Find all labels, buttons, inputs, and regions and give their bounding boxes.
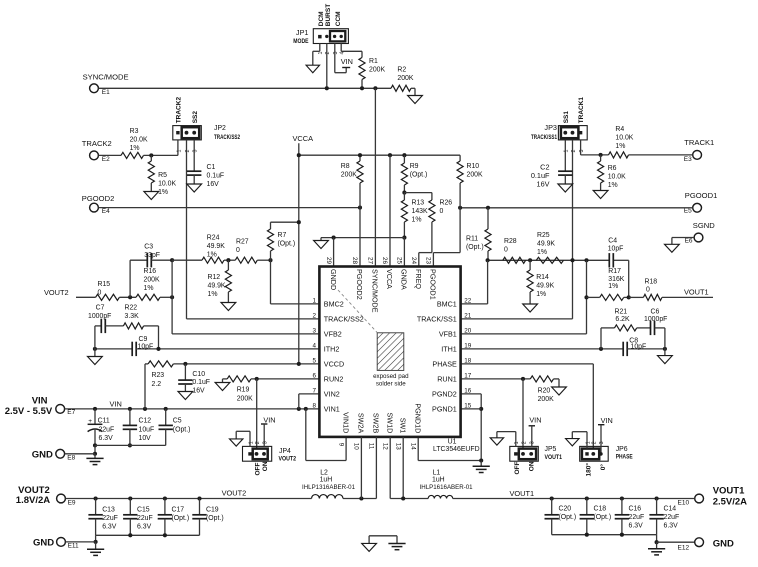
svg-text:180°: 180° xyxy=(584,463,592,477)
svg-text:2.2: 2.2 xyxy=(152,381,162,388)
svg-text:6.3V: 6.3V xyxy=(629,523,644,530)
svg-text:C6: C6 xyxy=(651,309,660,316)
svg-text:R15: R15 xyxy=(98,281,111,288)
svg-text:PGOOD2: PGOOD2 xyxy=(82,194,115,203)
svg-text:10.0K: 10.0K xyxy=(615,135,633,142)
svg-text:JP6: JP6 xyxy=(616,446,628,453)
svg-text:25: 25 xyxy=(396,257,403,265)
svg-text:C5: C5 xyxy=(173,418,182,425)
svg-text:GND: GND xyxy=(32,450,53,461)
svg-text:16V: 16V xyxy=(192,388,205,395)
svg-text:7: 7 xyxy=(312,388,316,395)
svg-text:solder side: solder side xyxy=(376,380,406,387)
svg-text:C13: C13 xyxy=(102,506,115,513)
svg-text:R20: R20 xyxy=(538,387,551,394)
svg-text:(Opt.): (Opt.) xyxy=(410,172,428,179)
svg-text:1%: 1% xyxy=(537,249,547,256)
svg-text:R4: R4 xyxy=(615,126,624,133)
svg-text:C9: C9 xyxy=(139,336,148,343)
svg-text:R16: R16 xyxy=(144,268,157,275)
svg-text:1%: 1% xyxy=(608,182,618,189)
svg-text:6.3V: 6.3V xyxy=(137,523,152,530)
svg-text:0: 0 xyxy=(440,208,444,215)
svg-text:3.3K: 3.3K xyxy=(125,313,140,320)
svg-text:6.3V: 6.3V xyxy=(664,523,679,530)
svg-text:3: 3 xyxy=(530,441,536,444)
svg-text:OFF: OFF xyxy=(254,462,261,475)
svg-text:E12: E12 xyxy=(678,544,690,551)
svg-text:12: 12 xyxy=(381,443,388,451)
svg-text:0: 0 xyxy=(98,289,102,296)
svg-text:1: 1 xyxy=(514,441,520,444)
svg-text:R3: R3 xyxy=(130,128,139,135)
svg-text:C10: C10 xyxy=(192,371,205,378)
svg-text:316K: 316K xyxy=(608,276,624,283)
svg-text:0: 0 xyxy=(236,247,240,254)
svg-text:10.0K: 10.0K xyxy=(608,173,626,180)
svg-text:R19: R19 xyxy=(237,387,250,394)
svg-text:E10: E10 xyxy=(678,500,690,507)
svg-text:SS2: SS2 xyxy=(192,111,199,124)
svg-text:PGND1: PGND1 xyxy=(432,405,457,414)
svg-text:10pF: 10pF xyxy=(138,344,154,351)
svg-text:200K: 200K xyxy=(467,172,483,179)
svg-text:49.9K: 49.9K xyxy=(536,283,554,290)
svg-text:SW1: SW1 xyxy=(398,418,407,434)
svg-text:3: 3 xyxy=(599,441,605,444)
svg-text:VIN: VIN xyxy=(601,416,613,425)
svg-text:JP4: JP4 xyxy=(279,448,291,455)
svg-text:TRACK1: TRACK1 xyxy=(684,138,714,147)
svg-text:E3: E3 xyxy=(684,156,692,163)
svg-text:L1: L1 xyxy=(433,469,441,476)
svg-text:R1: R1 xyxy=(369,58,378,65)
svg-text:1000pF: 1000pF xyxy=(88,313,111,320)
svg-text:1%: 1% xyxy=(144,285,154,292)
svg-text:9: 9 xyxy=(337,443,344,447)
svg-text:R6: R6 xyxy=(608,165,617,172)
svg-text:ITH1: ITH1 xyxy=(441,345,457,354)
svg-text:R5: R5 xyxy=(158,172,167,179)
svg-text:6.3V: 6.3V xyxy=(99,435,114,442)
svg-text:20: 20 xyxy=(464,328,472,335)
svg-text:SW2A: SW2A xyxy=(357,413,366,434)
svg-text:SW1D: SW1D xyxy=(385,413,394,434)
svg-text:VFB2: VFB2 xyxy=(324,330,342,339)
svg-text:LTC3546EUFD: LTC3546EUFD xyxy=(433,446,480,453)
svg-text:2.5V - 5.5V: 2.5V - 5.5V xyxy=(5,406,53,417)
svg-text:2: 2 xyxy=(592,441,598,444)
svg-text:VOUT2: VOUT2 xyxy=(222,489,247,498)
svg-text:BMC1: BMC1 xyxy=(437,300,457,309)
svg-text:PGND2: PGND2 xyxy=(432,390,457,399)
svg-text:1.8V/2A: 1.8V/2A xyxy=(16,495,50,506)
svg-text:RUN2: RUN2 xyxy=(324,375,344,384)
svg-text:200K: 200K xyxy=(397,75,413,82)
svg-text:(Opt.): (Opt.) xyxy=(172,515,190,522)
svg-text:21: 21 xyxy=(464,313,472,320)
svg-text:R13: R13 xyxy=(412,200,425,207)
svg-text:1: 1 xyxy=(564,150,570,153)
svg-text:200K: 200K xyxy=(341,172,357,179)
svg-text:6: 6 xyxy=(312,373,316,380)
svg-text:24: 24 xyxy=(410,257,417,265)
svg-text:16V: 16V xyxy=(207,181,220,188)
svg-text:JP2: JP2 xyxy=(214,125,226,132)
svg-text:E11: E11 xyxy=(68,543,79,550)
svg-text:SGND: SGND xyxy=(693,221,715,230)
svg-text:PGOOD1: PGOOD1 xyxy=(429,269,438,300)
svg-text:(Opt.): (Opt.) xyxy=(278,241,296,248)
svg-text:1%: 1% xyxy=(158,189,168,196)
svg-text:SYNC/MODE: SYNC/MODE xyxy=(83,73,129,82)
svg-text:GND: GND xyxy=(713,538,734,549)
svg-text:R25: R25 xyxy=(537,232,550,239)
svg-text:R26: R26 xyxy=(440,200,453,207)
svg-text:0.1uF: 0.1uF xyxy=(192,379,210,386)
svg-text:3: 3 xyxy=(312,328,316,335)
svg-text:10.0K: 10.0K xyxy=(158,181,176,188)
svg-text:VOUT1: VOUT1 xyxy=(713,486,745,497)
svg-text:22uF: 22uF xyxy=(102,515,118,522)
svg-text:IHLP1616ABER-01: IHLP1616ABER-01 xyxy=(420,484,473,491)
svg-text:E6: E6 xyxy=(685,237,693,244)
svg-text:1: 1 xyxy=(248,441,254,444)
svg-text:1%: 1% xyxy=(412,217,422,224)
svg-text:R22: R22 xyxy=(125,304,138,311)
svg-text:R12: R12 xyxy=(208,274,221,281)
svg-text:49.9K: 49.9K xyxy=(208,283,226,290)
svg-text:TRACK/SS1: TRACK/SS1 xyxy=(531,134,557,141)
svg-text:C16: C16 xyxy=(629,506,642,513)
svg-text:1%: 1% xyxy=(208,291,218,298)
svg-text:+: + xyxy=(88,418,92,425)
svg-text:R10: R10 xyxy=(467,163,480,170)
svg-text:ITH2: ITH2 xyxy=(324,345,340,354)
svg-text:TRACK/SS2: TRACK/SS2 xyxy=(324,315,364,324)
svg-text:PGOOD1: PGOOD1 xyxy=(685,191,718,200)
svg-text:BMC2: BMC2 xyxy=(324,300,344,309)
svg-text:C18: C18 xyxy=(594,506,607,513)
svg-text:VIN2: VIN2 xyxy=(324,390,340,399)
svg-text:JP3: JP3 xyxy=(544,123,557,132)
svg-text:R28: R28 xyxy=(504,238,517,245)
svg-text:(Opt.): (Opt.) xyxy=(206,515,224,522)
svg-text:E7: E7 xyxy=(67,409,75,416)
svg-text:VOUT1: VOUT1 xyxy=(545,454,563,461)
svg-text:VCCD: VCCD xyxy=(324,360,344,369)
svg-text:ON: ON xyxy=(528,461,535,471)
svg-text:200K: 200K xyxy=(144,276,160,283)
svg-text:15: 15 xyxy=(464,403,472,410)
svg-text:22: 22 xyxy=(464,298,472,305)
svg-text:VFB1: VFB1 xyxy=(439,330,457,339)
svg-text:2: 2 xyxy=(312,313,316,320)
svg-text:VCCA: VCCA xyxy=(293,134,314,143)
svg-text:E1: E1 xyxy=(102,89,110,96)
svg-text:1%: 1% xyxy=(615,143,625,150)
svg-text:2: 2 xyxy=(571,150,577,153)
svg-text:(Opt.): (Opt.) xyxy=(466,244,484,251)
svg-text:E9: E9 xyxy=(68,500,76,507)
svg-text:20.0K: 20.0K xyxy=(130,137,148,144)
svg-text:R8: R8 xyxy=(341,163,350,170)
svg-text:2: 2 xyxy=(255,441,261,444)
svg-text:VOUT1: VOUT1 xyxy=(684,288,709,297)
svg-text:VIN: VIN xyxy=(263,415,275,424)
svg-text:16V: 16V xyxy=(537,179,550,188)
svg-text:4: 4 xyxy=(312,343,316,350)
svg-text:R18: R18 xyxy=(645,278,658,285)
svg-text:10pF: 10pF xyxy=(631,344,647,351)
svg-text:1000pF: 1000pF xyxy=(644,316,667,323)
svg-text:VCCA: VCCA xyxy=(385,269,394,289)
svg-text:C19: C19 xyxy=(206,506,219,513)
svg-text:3: 3 xyxy=(262,441,268,444)
svg-text:VOUT2: VOUT2 xyxy=(44,288,69,297)
svg-text:28: 28 xyxy=(351,257,358,265)
svg-text:ON: ON xyxy=(262,461,269,471)
svg-text:R9: R9 xyxy=(410,163,419,170)
svg-text:1: 1 xyxy=(585,441,591,444)
svg-text:(Opt.): (Opt.) xyxy=(594,514,612,521)
svg-text:(Opt.): (Opt.) xyxy=(559,514,577,521)
svg-text:R7: R7 xyxy=(278,232,287,239)
svg-text:VOUT1: VOUT1 xyxy=(510,489,535,498)
svg-text:VIN1: VIN1 xyxy=(324,405,340,414)
svg-text:RUN1: RUN1 xyxy=(437,375,457,384)
svg-text:C7: C7 xyxy=(96,304,105,311)
svg-text:VIN: VIN xyxy=(529,415,541,424)
svg-text:C17: C17 xyxy=(172,506,185,513)
svg-text:22uF: 22uF xyxy=(99,426,115,433)
svg-text:6.3V: 6.3V xyxy=(102,523,117,530)
svg-text:18: 18 xyxy=(464,358,472,365)
svg-text:49.9K: 49.9K xyxy=(537,241,555,248)
svg-text:OFF: OFF xyxy=(514,461,521,474)
svg-text:TRACK/SS2: TRACK/SS2 xyxy=(214,134,240,141)
svg-text:TRACK2: TRACK2 xyxy=(82,139,112,148)
svg-text:FREQ: FREQ xyxy=(414,269,423,289)
svg-text:0: 0 xyxy=(504,247,508,254)
svg-text:MODE: MODE xyxy=(293,38,309,45)
svg-text:26: 26 xyxy=(381,257,388,265)
svg-text:GNDD: GNDD xyxy=(329,269,338,290)
svg-text:C1: C1 xyxy=(207,164,216,171)
svg-text:1%: 1% xyxy=(207,251,217,258)
svg-text:1%: 1% xyxy=(608,283,618,290)
svg-text:R14: R14 xyxy=(536,274,549,281)
svg-text:29: 29 xyxy=(325,257,332,265)
svg-text:2.5V/2A: 2.5V/2A xyxy=(713,497,747,508)
svg-text:5: 5 xyxy=(312,358,316,365)
svg-text:VIN: VIN xyxy=(32,395,48,406)
svg-text:PGND1D: PGND1D xyxy=(413,403,422,433)
svg-text:IHLP1316ABER-01: IHLP1316ABER-01 xyxy=(302,484,355,491)
svg-text:19: 19 xyxy=(464,343,472,350)
svg-text:DCM: DCM xyxy=(318,11,325,26)
svg-text:C11: C11 xyxy=(98,418,110,425)
svg-text:16: 16 xyxy=(464,388,472,395)
svg-text:E4: E4 xyxy=(102,208,110,215)
svg-text:U1: U1 xyxy=(448,438,457,445)
svg-text:C4: C4 xyxy=(608,238,617,245)
svg-text:23: 23 xyxy=(425,257,432,265)
svg-text:13: 13 xyxy=(394,443,401,451)
svg-text:PHASE: PHASE xyxy=(616,453,633,460)
svg-text:TRACK/SS1: TRACK/SS1 xyxy=(417,315,457,324)
svg-text:PGOOD2: PGOOD2 xyxy=(355,269,364,300)
svg-text:GND: GND xyxy=(33,537,54,548)
svg-text:C20: C20 xyxy=(559,506,572,513)
svg-text:6.2K: 6.2K xyxy=(615,316,630,323)
svg-text:VIN: VIN xyxy=(341,57,353,66)
svg-text:C15: C15 xyxy=(137,506,150,513)
svg-text:49.9K: 49.9K xyxy=(207,243,225,250)
svg-text:0°: 0° xyxy=(599,464,607,471)
svg-text:R21: R21 xyxy=(615,309,628,316)
svg-text:SYNC/MODE: SYNC/MODE xyxy=(371,269,380,313)
svg-text:22uF: 22uF xyxy=(664,514,680,521)
svg-text:JP1: JP1 xyxy=(296,28,309,37)
svg-text:143K: 143K xyxy=(412,208,428,215)
svg-text:11: 11 xyxy=(368,443,375,450)
svg-text:JP5: JP5 xyxy=(545,446,557,453)
svg-text:VIN: VIN xyxy=(110,399,122,408)
svg-text:R23: R23 xyxy=(152,372,165,379)
svg-text:E8: E8 xyxy=(67,454,75,461)
svg-text:SS1: SS1 xyxy=(563,111,570,124)
svg-text:33pF: 33pF xyxy=(144,252,160,259)
svg-text:17: 17 xyxy=(464,373,472,380)
svg-text:1: 1 xyxy=(312,298,316,305)
svg-text:10V: 10V xyxy=(139,435,152,442)
svg-text:GNDA: GNDA xyxy=(400,269,409,290)
svg-text:0.1uF: 0.1uF xyxy=(207,172,225,179)
svg-text:VOUT2: VOUT2 xyxy=(279,456,297,463)
svg-text:200K: 200K xyxy=(538,396,554,403)
svg-text:SW2B: SW2B xyxy=(372,413,381,434)
svg-text:10pF: 10pF xyxy=(608,245,624,252)
svg-text:R2: R2 xyxy=(397,67,406,74)
svg-text:2: 2 xyxy=(325,52,331,55)
svg-text:CCM: CCM xyxy=(335,11,342,26)
svg-text:L2: L2 xyxy=(320,469,328,476)
svg-text:200K: 200K xyxy=(237,395,253,402)
svg-text:2: 2 xyxy=(521,441,527,444)
svg-text:E2: E2 xyxy=(102,156,110,163)
svg-text:1: 1 xyxy=(176,150,182,153)
svg-text:C12: C12 xyxy=(139,418,152,425)
svg-text:3: 3 xyxy=(333,52,339,55)
svg-text:1%: 1% xyxy=(130,145,140,152)
svg-text:R11: R11 xyxy=(466,236,478,243)
svg-text:22uF: 22uF xyxy=(629,514,645,521)
svg-text:exposed pad: exposed pad xyxy=(373,373,409,380)
svg-text:1%: 1% xyxy=(536,291,546,298)
svg-text:0: 0 xyxy=(646,286,650,293)
svg-text:27: 27 xyxy=(367,257,374,265)
svg-text:VIN1D: VIN1D xyxy=(341,412,350,433)
svg-text:10uF: 10uF xyxy=(139,426,155,433)
svg-text:C14: C14 xyxy=(664,506,677,513)
svg-text:R17: R17 xyxy=(608,268,621,275)
svg-text:TRACK2: TRACK2 xyxy=(175,97,182,124)
svg-text:14: 14 xyxy=(409,443,416,451)
svg-text:3: 3 xyxy=(193,150,199,153)
svg-text:PHASE: PHASE xyxy=(432,360,457,369)
svg-text:8: 8 xyxy=(312,403,316,410)
svg-text:200K: 200K xyxy=(369,67,385,74)
svg-text:BURST: BURST xyxy=(325,4,332,26)
svg-text:1uH: 1uH xyxy=(432,477,445,484)
svg-text:4: 4 xyxy=(340,52,346,55)
svg-text:22uF: 22uF xyxy=(137,515,153,522)
svg-text:10: 10 xyxy=(353,443,360,451)
svg-text:3: 3 xyxy=(579,150,585,153)
svg-text:1: 1 xyxy=(318,52,324,55)
svg-text:C3: C3 xyxy=(144,243,153,250)
svg-text:1uH: 1uH xyxy=(320,477,333,484)
svg-text:(Opt.): (Opt.) xyxy=(173,426,191,433)
svg-text:2: 2 xyxy=(185,150,191,153)
svg-text:TRACK1: TRACK1 xyxy=(578,97,585,124)
svg-text:R24: R24 xyxy=(207,234,220,241)
svg-text:R27: R27 xyxy=(236,239,249,246)
